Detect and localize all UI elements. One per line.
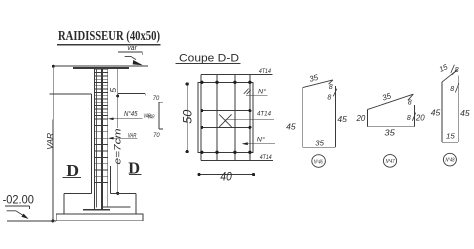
title RAIDISSEUR (40x50) bbox=[57, 29, 161, 45]
svg-text:20: 20 bbox=[356, 113, 366, 123]
svg-text:D: D bbox=[66, 161, 79, 180]
column bar left bbox=[96, 68, 98, 207]
top slab thick line bbox=[73, 67, 129, 69]
ground line bbox=[7, 220, 56, 222]
svg-text:N°: N° bbox=[257, 135, 265, 143]
svg-text:35: 35 bbox=[381, 91, 393, 103]
svg-text:8: 8 bbox=[327, 95, 331, 102]
middle row line 1 bbox=[200, 109, 251, 112]
svg-text:8: 8 bbox=[329, 84, 333, 91]
section label D right bbox=[128, 158, 141, 177]
leader 4T14 middle bbox=[225, 110, 274, 119]
footing top left bbox=[64, 192, 91, 194]
leader e=7cm bbox=[113, 96, 123, 195]
svg-text:5: 5 bbox=[108, 88, 118, 93]
svg-text:N°47: N°47 bbox=[386, 159, 395, 165]
title Coupe D-D bbox=[176, 52, 241, 64]
svg-text:20: 20 bbox=[415, 113, 425, 123]
svg-text:8: 8 bbox=[450, 86, 454, 93]
svg-text:35: 35 bbox=[315, 139, 324, 148]
cross tie X bbox=[219, 114, 231, 127]
svg-text:45: 45 bbox=[431, 108, 441, 118]
svg-text:45: 45 bbox=[460, 108, 470, 118]
section concrete rect top line bbox=[201, 73, 273, 75]
rebar shape N°46 bbox=[286, 73, 347, 148]
dimension line var bbox=[118, 52, 142, 55]
dimension VAR left vertical bbox=[46, 65, 55, 223]
svg-text:N°48: N°48 bbox=[446, 158, 455, 164]
mark circle N°46 bbox=[312, 155, 326, 168]
svg-text:70: 70 bbox=[153, 95, 160, 102]
svg-text:45: 45 bbox=[286, 121, 296, 131]
svg-text:35: 35 bbox=[384, 128, 395, 137]
svg-text:4T14: 4T14 bbox=[257, 110, 271, 117]
svg-text:RAIDISSEUR (40x50): RAIDISSEUR (40x50) bbox=[58, 29, 160, 44]
svg-text:40: 40 bbox=[220, 172, 232, 184]
top slab thin line bbox=[53, 65, 148, 67]
svg-text:VAR: VAR bbox=[128, 133, 137, 139]
mark circle N°48 bbox=[443, 153, 456, 166]
wall face line bbox=[90, 94, 92, 193]
svg-text:4T14: 4T14 bbox=[260, 154, 272, 161]
rebar shape N°47 bbox=[356, 91, 425, 137]
section concrete rect left bbox=[200, 74, 202, 160]
svg-text:35: 35 bbox=[308, 73, 319, 84]
rebar shape N°48 bbox=[431, 62, 470, 142]
svg-text:e=7cm: e=7cm bbox=[113, 128, 123, 165]
section stirrup outer rect bbox=[198, 82, 253, 152]
svg-text:Coupe D-D: Coupe D-D bbox=[179, 52, 239, 64]
svg-text:VAR: VAR bbox=[148, 114, 155, 120]
svg-text:8: 8 bbox=[407, 115, 411, 122]
slope arrow top bbox=[125, 56, 143, 65]
svg-text:N°46: N°46 bbox=[314, 159, 323, 165]
level label -02.00 bbox=[3, 194, 34, 209]
section inner vertical 2 bbox=[234, 74, 236, 160]
dimension 40 bbox=[197, 172, 255, 184]
svg-text:70: 70 bbox=[153, 132, 160, 139]
svg-text:4T14: 4T14 bbox=[259, 68, 271, 75]
svg-text:-02.00: -02.00 bbox=[3, 194, 34, 206]
svg-text:8: 8 bbox=[455, 67, 459, 74]
column bar middle bbox=[101, 68, 103, 209]
dimension 5 bbox=[108, 69, 119, 98]
leader VAR lower bbox=[108, 133, 138, 139]
footing slab bbox=[56, 214, 143, 221]
top rebar row dots bbox=[200, 81, 251, 84]
section label D left bbox=[62, 161, 81, 180]
zone line 70 bbox=[118, 93, 146, 95]
section concrete rect bottom line bbox=[201, 160, 273, 162]
svg-text:45: 45 bbox=[337, 114, 347, 124]
level slope arrow bbox=[7, 211, 29, 219]
stirrup hook top right bbox=[244, 89, 251, 95]
column base bar foot left bbox=[83, 209, 110, 211]
bracket 70 VAR 70 bbox=[148, 95, 163, 139]
footing side right bbox=[135, 193, 137, 214]
bottom rebar row dots bbox=[200, 151, 251, 154]
svg-text:var: var bbox=[127, 43, 137, 52]
middle row line 2 bbox=[200, 126, 251, 129]
label var top bbox=[127, 43, 137, 52]
section concrete rect right bbox=[249, 74, 251, 160]
svg-text:15: 15 bbox=[438, 62, 450, 74]
svg-text:N°45: N°45 bbox=[124, 110, 138, 118]
footing side left bbox=[63, 193, 65, 214]
column stirrup rungs bbox=[94, 69, 107, 182]
wall face right short bbox=[109, 166, 111, 193]
svg-text:VAR: VAR bbox=[46, 133, 55, 150]
svg-text:15: 15 bbox=[446, 131, 456, 140]
column base bar foot right bbox=[103, 206, 130, 208]
svg-text:N°: N° bbox=[258, 87, 266, 95]
footing top right bbox=[110, 192, 135, 194]
svg-text:50: 50 bbox=[181, 109, 195, 123]
section inner vertical 1 bbox=[216, 74, 218, 160]
column edge left bbox=[93, 68, 95, 209]
dimension 50 bbox=[181, 82, 195, 153]
leader N°45 VAR bbox=[108, 110, 151, 120]
leader N° upper bbox=[246, 87, 268, 95]
wall top line bbox=[49, 93, 91, 95]
svg-text:8: 8 bbox=[408, 100, 412, 107]
leader N° lower bbox=[242, 135, 275, 145]
mark circle N°47 bbox=[383, 155, 396, 168]
column edge right bbox=[107, 68, 109, 207]
